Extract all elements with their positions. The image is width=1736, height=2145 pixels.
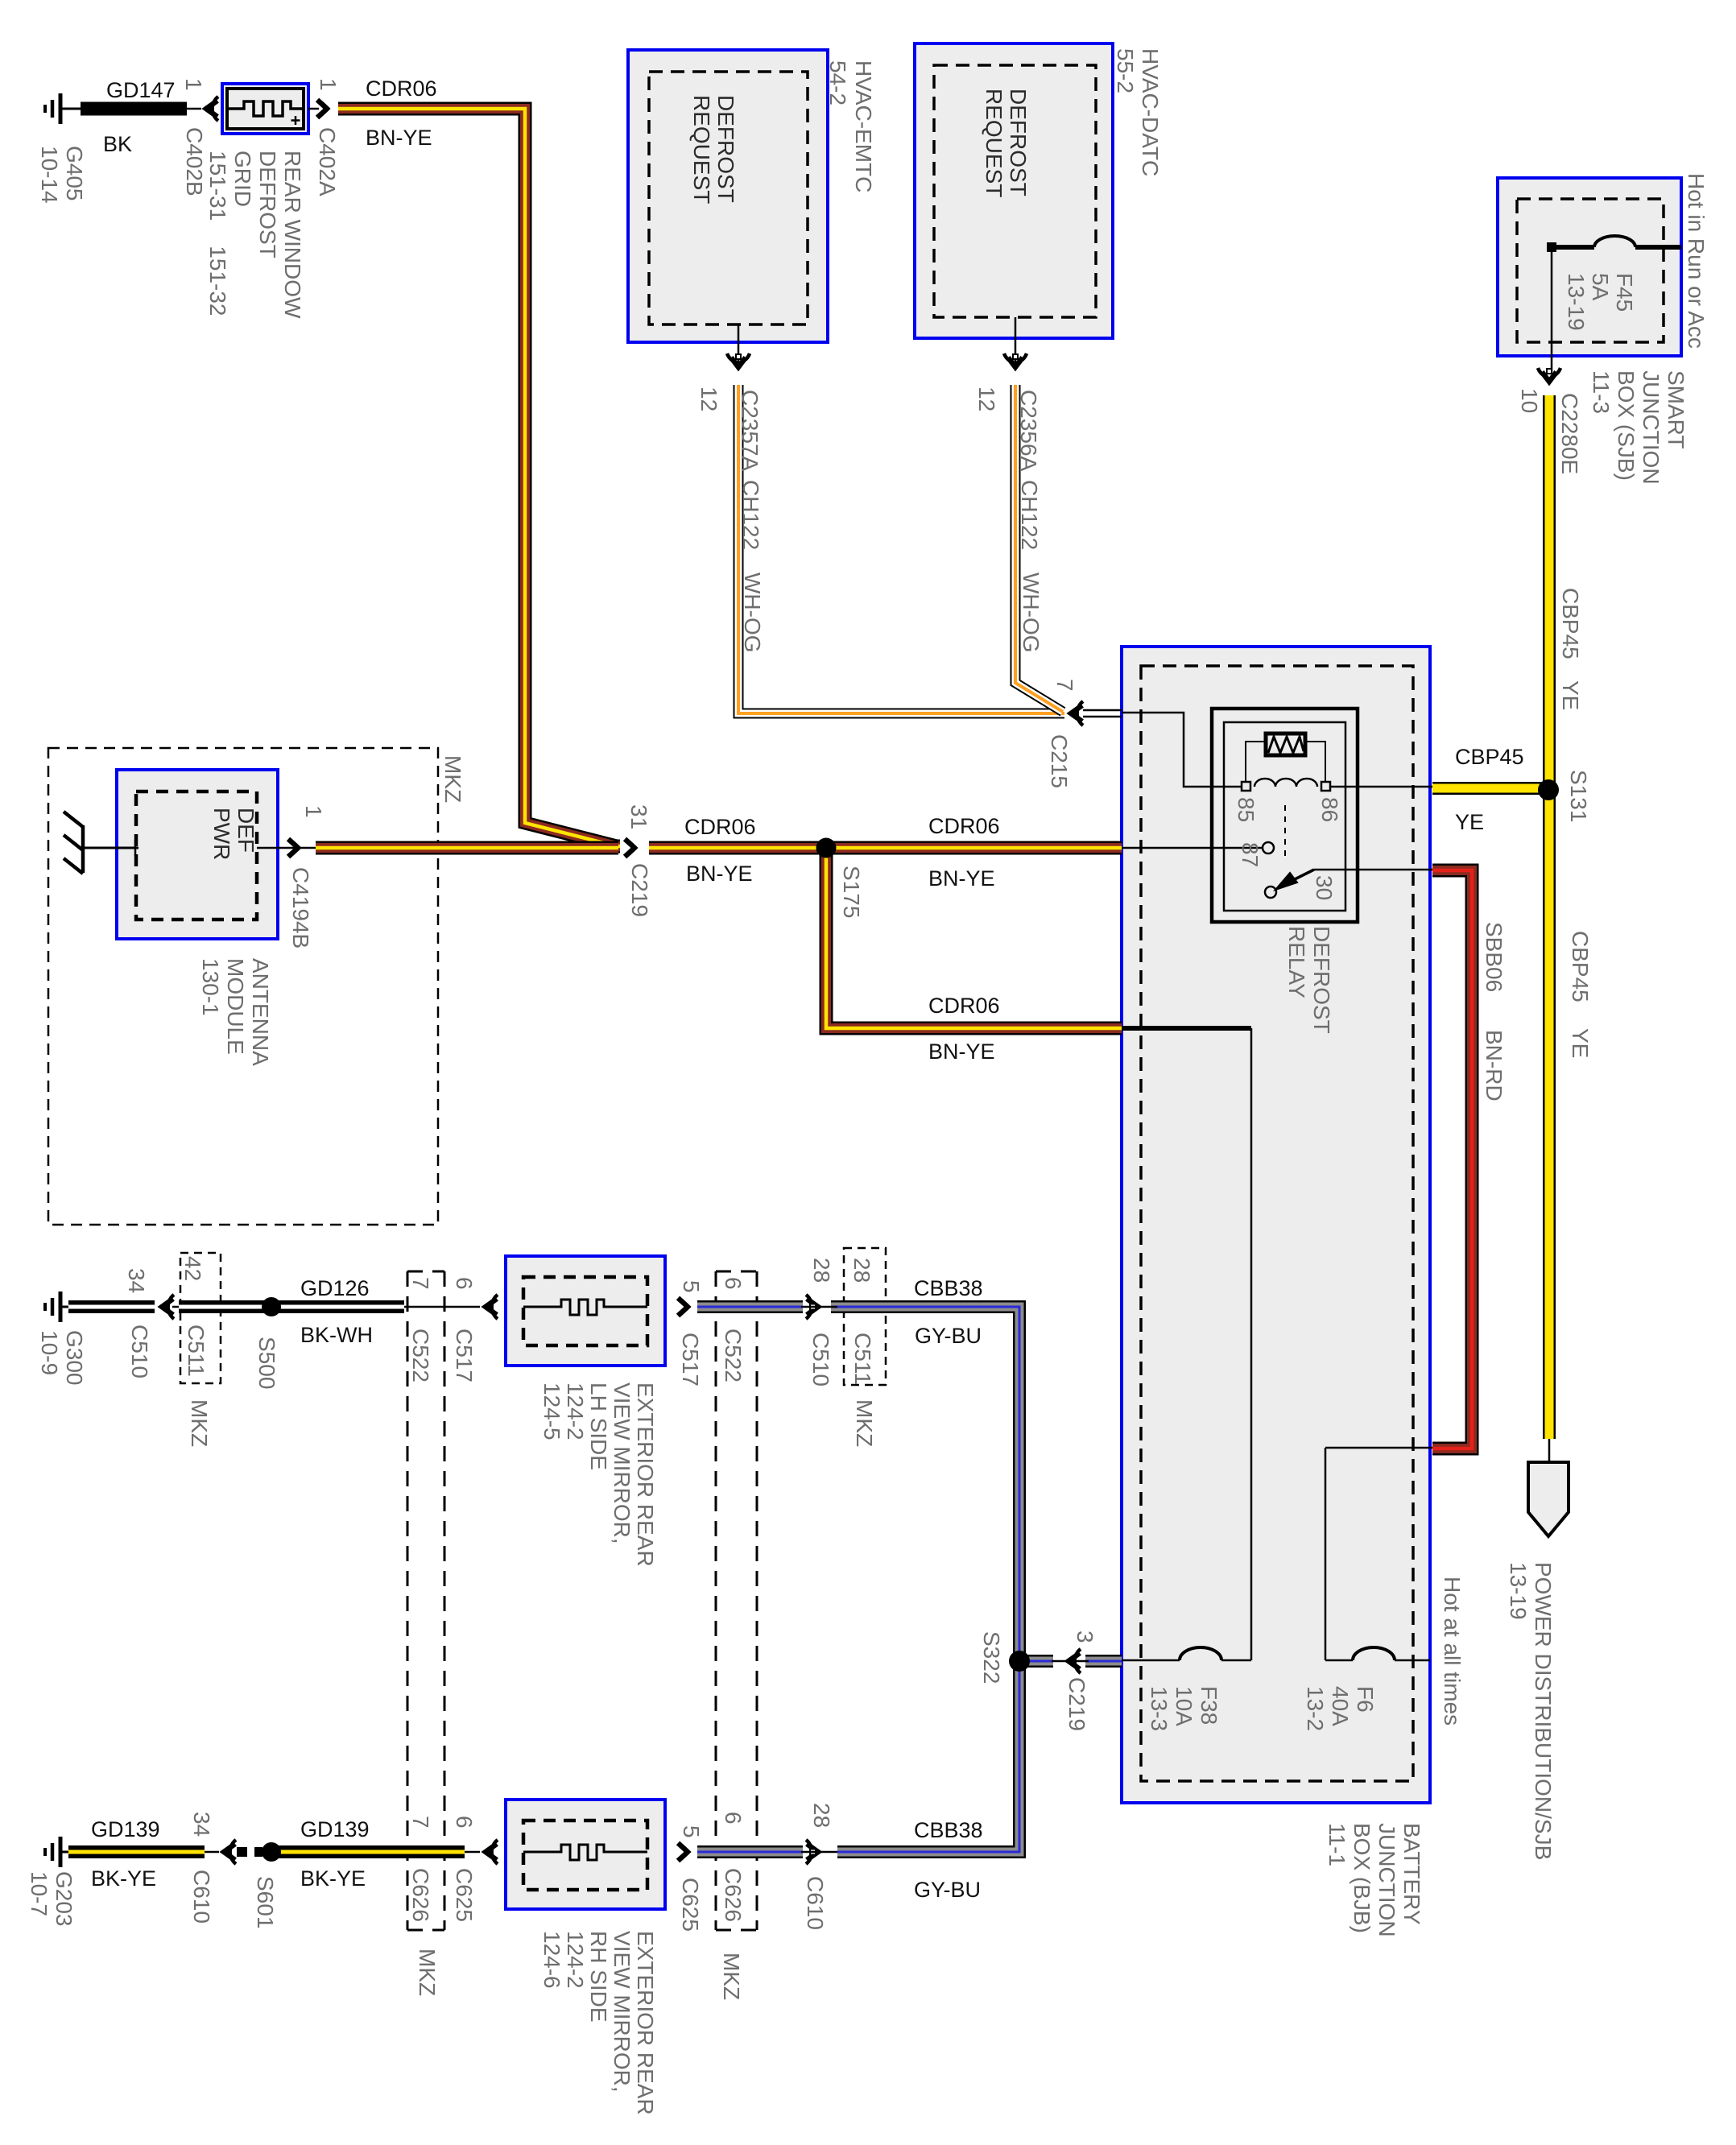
connector arrow C2357A pin 12 [727,353,750,367]
svg-text:MKZ: MKZ [187,1399,212,1447]
LH mirror heater element [523,1300,647,1315]
svg-text:C4194B: C4194B [288,867,313,949]
svg-text:CDR06: CDR06 [928,814,1000,838]
thin line from yellow wire end to pentagon [1548,1439,1551,1462]
connector arrow C219 pin 3 [1068,1649,1081,1673]
label "S175" [839,866,864,918]
label "C625" [678,1878,703,1932]
svg-text:34: 34 [124,1268,149,1293]
svg-text:BN-YE: BN-YE [686,862,753,886]
label "C511" [184,1325,209,1377]
HVAC-EMTC box [628,50,828,342]
svg-text:7: 7 [1052,679,1077,692]
label "Hot at all times" [1440,1577,1465,1726]
label "7" [408,1277,433,1290]
svg-text:CBB38: CBB38 [914,1276,983,1300]
svg-text:GY-BU: GY-BU [914,1878,981,1902]
svg-text:BOX (BJB): BOX (BJB) [1350,1823,1374,1933]
label "REAR WINDOW / DEFROST / GRID / 151-31 151-32" [205,151,305,319]
svg-text:VIEW MIRROR,: VIEW MIRROR, [610,1382,634,1544]
svg-text:S500: S500 [254,1337,279,1389]
svg-text:BN-YE: BN-YE [928,866,995,891]
svg-text:124-5: 124-5 [539,1382,564,1440]
wire CDR06 BN-YE : C402A to corner, down, to C219 [338,109,620,846]
svg-text:C510: C510 [127,1325,152,1378]
svg-text:S601: S601 [253,1876,278,1928]
svg-text:1: 1 [301,805,326,818]
svg-text:BK-WH: BK-WH [300,1323,373,1347]
label "6" [452,1816,477,1829]
label "DEFROST / RELAY" [1284,926,1334,1034]
svg-text:87: 87 [1238,842,1263,867]
RH mirror box [506,1800,665,1909]
svg-text:HVAC-DATC: HVAC-DATC [1138,48,1163,176]
label "C510" [808,1333,833,1387]
tall inline connector C522/C626 dashed rect (right pair) [716,1271,757,1930]
label "DEFROST / REQUEST" [689,95,738,204]
svg-text:G203: G203 [52,1871,76,1927]
svg-text:54-2: 54-2 [825,60,850,105]
label "C522" [408,1329,433,1382]
label "6" [721,1277,746,1290]
wire CBB38 GY-BU corner run [831,1307,1019,1852]
svg-text:6: 6 [721,1277,746,1290]
label "F6 / 40A / 13-2" [1303,1686,1378,1731]
tall inline connector C522/C626 dashed rect (left pair) [407,1271,444,1930]
svg-text:12: 12 [974,386,999,411]
svg-text:CDR06: CDR06 [928,994,1000,1018]
connector arrow C517 pin 5 [678,1298,688,1316]
wire CBP45 YE vertical [1543,395,1556,1439]
svg-text:151-31 151-32: 151-31 151-32 [205,151,230,316]
svg-text:13-2: 13-2 [1303,1686,1328,1731]
svg-text:C625: C625 [452,1868,477,1922]
F38 fuse [1122,1659,1251,1662]
label "C219" [1064,1677,1089,1731]
label "C219" [627,863,652,917]
label "5" [679,1280,704,1293]
svg-text:C219: C219 [1064,1677,1089,1731]
svg-text:BATTERY: BATTERY [1399,1823,1424,1925]
label "6" [721,1812,746,1825]
label "C402A" [315,127,340,196]
label "ANTENNA / MODULE / 130-1" [198,958,273,1066]
svg-text:YE: YE [1455,810,1484,834]
LH mirror ground chain: G300 [45,1292,81,1322]
connector arrow C610 pin 28 [806,1840,818,1864]
svg-text:DEF: DEF [234,808,258,853]
svg-text:CH122: CH122 [738,480,763,550]
svg-text:86: 86 [1317,797,1342,822]
svg-text:C2357A: C2357A [738,390,763,472]
label "CBP45" [1568,931,1593,1002]
svg-text:C610: C610 [803,1876,828,1930]
svg-text:YE: YE [1568,1028,1593,1058]
connector arrow C517 pin 6 [486,1295,498,1319]
svg-text:SBB06: SBB06 [1482,922,1507,992]
defrost grid element [229,101,302,116]
label "HVAC-DATC / 55-2" [1113,48,1163,176]
power distribution pentagon [1528,1462,1569,1536]
label "28" [809,1258,834,1283]
svg-text:BK-YE: BK-YE [91,1866,156,1891]
svg-text:WH-OG: WH-OG [1019,572,1044,653]
svg-text:Hot in Run or Acc: Hot in Run or Acc [1684,173,1709,349]
svg-text:11-3: 11-3 [1589,370,1614,414]
svg-text:DEFROST: DEFROST [1309,926,1334,1034]
ground G405 [45,93,81,124]
label "BN-RD" [1482,1030,1507,1101]
svg-text:LH SIDE: LH SIDE [586,1382,611,1470]
wire GD139 BK-YE left [68,1845,205,1858]
svg-text:C402B: C402B [182,127,207,196]
SJB box [1498,178,1681,356]
F6 fuse + feed line [1325,1448,1430,1660]
label "YE" [1558,680,1583,710]
svg-text:S322: S322 [979,1631,1004,1684]
antenna module stub to connector [257,847,316,849]
svg-text:124-6: 124-6 [539,1931,564,1989]
label "42" [180,1256,205,1281]
label "C517" [678,1333,703,1387]
connector arrow C610 pin 34 [224,1840,236,1864]
wire from antenna module C4194B [316,841,618,855]
coil arcs [1254,779,1317,787]
svg-text:C626: C626 [408,1868,433,1922]
splice S601 [262,1842,281,1862]
svg-text:42: 42 [180,1256,205,1281]
label "3" [1073,1630,1097,1643]
label "MKZ" [187,1399,212,1447]
label "C522" [721,1329,746,1382]
label "1" [181,78,206,91]
label "CBP45" [1558,588,1583,659]
label "BATTERY / JUNCTION / BOX (BJB) / 11-1" [1325,1823,1424,1937]
label "CH122" [1017,480,1042,550]
svg-text:C511: C511 [184,1325,209,1377]
label "MKZ" [440,755,465,803]
wire CBB38 GY-BU RH row [697,1845,803,1858]
svg-text:7: 7 [408,1277,433,1290]
DATC internal wire stub [1015,317,1017,366]
svg-text:BOX (SJB): BOX (SJB) [1614,370,1639,481]
label "6" [452,1277,477,1290]
svg-text:GY-BU: GY-BU [915,1324,982,1348]
wire SBB06 BN-RD [1432,870,1472,1449]
svg-text:C402A: C402A [315,127,340,196]
label "S601" [253,1876,278,1928]
dashed link to S601 [237,1847,262,1857]
RH mirror ground chain: G203 [45,1837,81,1867]
svg-text:10: 10 [1517,388,1542,413]
svg-text:CDR06: CDR06 [684,815,756,839]
label "C2357A" [738,390,763,472]
svg-text:6: 6 [721,1812,746,1825]
wire GD126 BK-WH left [68,1300,155,1313]
connector arrow C402B pin 1 [206,97,218,121]
svg-text:REAR WINDOW: REAR WINDOW [280,151,305,319]
label "C510" [127,1325,152,1378]
svg-text:DEFROST: DEFROST [1006,89,1031,196]
label "1" [301,805,326,818]
connector arrow C4194B pin 1 [288,839,298,857]
svg-text:C610: C610 [189,1870,214,1924]
label "S322" [979,1631,1004,1684]
label "C511" [850,1333,875,1385]
line 85 to C215 entry [1122,713,1242,787]
label "28" [849,1258,874,1283]
rear window defrost grid box [222,84,308,134]
label "SMART / JUNCTION / BOX (SJB) / 11-3" [1589,370,1688,485]
svg-text:CBP45: CBP45 [1455,745,1524,769]
svg-text:WH-OG: WH-OG [740,572,765,653]
wire GD147 BK (solid black) [81,102,187,116]
svg-text:28: 28 [809,1803,834,1828]
87 contact line [1122,847,1262,849]
wire CDR06 BN-YE : S175 branch down to BJB [826,853,1122,1028]
wire CH122 WH-OG from EMTC [738,385,1064,713]
svg-text:MKZ: MKZ [415,1949,440,1996]
line 86 to yellow wire [1330,786,1432,788]
svg-text:C510: C510 [808,1333,833,1387]
svg-text:5: 5 [679,1825,704,1838]
label "C626" [721,1868,746,1922]
svg-text:GRID: GRID [230,151,255,207]
svg-text:55-2: 55-2 [1113,48,1138,93]
chassis ground (antenna) [64,812,83,874]
svg-text:REQUEST: REQUEST [689,95,714,204]
label "YE" [1568,1028,1593,1058]
svg-text:31: 31 [626,804,651,829]
svg-text:GD139: GD139 [91,1817,160,1841]
svg-text:BK: BK [103,132,132,156]
label "31" [626,804,651,829]
label "7" [408,1816,433,1829]
svg-text:PWR: PWR [209,808,234,860]
svg-text:6: 6 [452,1816,477,1829]
label "HVAC-EMTC / 54-2" [825,60,876,192]
svg-text:7: 7 [408,1816,433,1829]
svg-text:F38: F38 [1197,1686,1221,1725]
svg-text:11-1: 11-1 [1325,1823,1350,1866]
svg-text:C2280E: C2280E [1557,393,1582,474]
svg-text:REQUEST: REQUEST [982,89,1006,197]
label "1" [316,78,341,91]
label "WH-OG" [740,572,765,653]
svg-text:G405: G405 [62,146,87,201]
wire GD139 BK-YE mid [277,1845,465,1858]
switch blade [1265,887,1276,898]
svg-text:1: 1 [181,78,206,91]
C511 inline connector dashed box (CBB38 row) [844,1248,886,1385]
svg-text:S131: S131 [1566,770,1591,822]
svg-text:F45: F45 [1612,273,1637,312]
label "WH-OG" [1019,572,1044,653]
label "12" [696,386,721,411]
splice S131 [1538,779,1559,800]
svg-text:F6: F6 [1353,1686,1378,1713]
label "C626" [408,1868,433,1922]
splice S322 [1009,1651,1030,1672]
svg-text:10-9: 10-9 [37,1330,62,1375]
label "S500" [254,1337,279,1389]
svg-text:ANTENNA: ANTENNA [248,958,273,1066]
svg-text:HVAC-EMTC: HVAC-EMTC [851,60,876,192]
svg-text:130-1: 130-1 [198,958,223,1016]
svg-text:POWER DISTRIBUTION/SJB: POWER DISTRIBUTION/SJB [1531,1562,1556,1860]
label "10" [1517,388,1542,413]
splice S175 [816,838,837,858]
relay coil resistor box [1266,734,1305,755]
label "30" [1312,875,1337,900]
svg-text:C522: C522 [721,1329,746,1382]
HVAC-DATC box [915,43,1113,338]
label "EXTERIOR REAR / VIEW MIRROR, / RH SIDE / 124-2 / 124-6" [539,1931,658,2115]
connector arrow C510 pin 34 [162,1295,174,1319]
svg-text:3: 3 [1073,1630,1097,1643]
svg-text:G300: G300 [62,1330,87,1386]
connector arrow C215 pin 7 [1071,701,1083,725]
wire S322 stub to C219 [1019,1655,1053,1668]
svg-text:40A: 40A [1328,1686,1353,1726]
svg-text:C215: C215 [1047,734,1072,788]
thick CDR06 line inside BJB [1122,1026,1251,1031]
wire GD126 BK-WH mid [179,1300,404,1313]
svg-text:GD139: GD139 [300,1817,370,1841]
neutral twisted pair C215 to BJB [1083,710,1122,717]
label "G203 / 10-7" [27,1871,76,1927]
svg-text:EXTERIOR REAR: EXTERIOR REAR [633,1931,658,2115]
svg-text:MKZ: MKZ [440,755,465,803]
label "C215" [1047,734,1072,788]
label "C625" [452,1868,477,1922]
svg-text:Hot at all times: Hot at all times [1440,1577,1465,1726]
label "Hot in Run or Acc" [1684,173,1709,349]
label "85" [1234,797,1259,822]
label "DEF / PWR" [209,808,258,860]
connector arrow C2280E pin 10 [1538,368,1560,382]
label "34" [189,1812,214,1837]
svg-text:JUNCTION: JUNCTION [1639,370,1664,485]
thin link grid box to C402A arrow [308,108,319,110]
wire thin links at connector gaps [801,1307,1089,1852]
svg-text:S175: S175 [839,866,864,918]
antenna module stub to ground [84,847,138,849]
svg-text:30: 30 [1312,875,1337,900]
svg-text:JUNCTION: JUNCTION [1374,1823,1399,1937]
svg-text:C219: C219 [627,863,652,917]
svg-text:34: 34 [189,1812,214,1837]
svg-text:BK-YE: BK-YE [300,1866,366,1891]
connector arrow C2356A pin 12 [1004,353,1027,367]
svg-text:BN-RD: BN-RD [1482,1030,1507,1101]
LH mirror box [506,1256,665,1366]
30 line to red wire [1314,869,1432,871]
svg-text:SMART: SMART [1664,370,1688,449]
svg-text:C626: C626 [721,1868,746,1922]
label "12" [974,386,999,411]
svg-text:13-19: 13-19 [1506,1562,1531,1620]
svg-text:28: 28 [849,1258,874,1283]
svg-text:VIEW MIRROR,: VIEW MIRROR, [610,1931,634,2093]
svg-text:RH SIDE: RH SIDE [586,1931,611,2023]
label "G405 / 10-14" [37,146,87,204]
svg-text:C517: C517 [452,1329,477,1382]
svg-text:124-2: 124-2 [563,1382,588,1440]
MKZ option dashed box (antenna module region) [48,748,438,1225]
label "C2280E" [1557,393,1582,474]
svg-text:BN-YE: BN-YE [366,126,432,150]
svg-text:6: 6 [452,1277,477,1290]
label "C517" [452,1329,477,1382]
svg-text:C2356A: C2356A [1016,390,1041,472]
svg-text:YE: YE [1558,680,1583,710]
svg-text:CDR06: CDR06 [366,76,437,101]
label "34" [124,1268,149,1293]
antenna module box [117,770,278,939]
wire CDR06 BN-YE : C219 to BJB [649,841,1122,855]
EMTC internal wire stub [738,324,740,366]
label "C610" [189,1870,214,1924]
label "SBB06" [1482,922,1507,992]
label "CH122" [738,480,763,550]
svg-text:12: 12 [696,386,721,411]
label "G300 / 10-9" [37,1330,87,1386]
svg-text:GD147: GD147 [106,78,176,102]
connector arrow C625 pin 6 [486,1840,498,1864]
label "86" [1317,797,1342,822]
RH mirror heater element [523,1845,647,1860]
label "MKZ" [852,1399,877,1447]
svg-text:DEFROST: DEFROST [713,95,738,203]
svg-text:10-7: 10-7 [27,1871,52,1916]
label "MKZ" [719,1953,744,2000]
label "C4194B" [288,867,313,949]
C511 inline connector dashed box (LH row) [180,1253,221,1383]
connector arrow C510 pin 28 [806,1295,818,1319]
label "S131" [1566,770,1591,822]
relay outer/inner rects [1212,709,1358,922]
connector arrow C402A pin 1 [317,100,327,118]
label "MKZ" [415,1949,440,1996]
BJB box [1122,647,1430,1803]
svg-text:1: 1 [316,78,341,91]
svg-text:10A: 10A [1172,1686,1197,1726]
relay action dashed line [1284,805,1286,860]
label "7" [1052,679,1077,692]
svg-text:GD126: GD126 [300,1276,370,1300]
svg-text:BN-YE: BN-YE [928,1039,995,1064]
svg-text:MODULE: MODULE [223,958,248,1055]
label "POWER DISTRIBUTION/SJB / 13-19" [1506,1562,1556,1860]
label "28" [809,1803,834,1828]
svg-text:C625: C625 [678,1878,703,1932]
svg-text:CBB38: CBB38 [914,1818,983,1842]
svg-text:124-2: 124-2 [563,1931,588,1989]
wire CH122 WH-OG from DATC [1015,385,1063,712]
label "C402B" [182,127,207,196]
coil wiring [1246,742,1325,782]
svg-text:C522: C522 [408,1329,433,1382]
SJB fuse F45 [1552,245,1681,250]
svg-text:13-3: 13-3 [1147,1686,1172,1731]
wire CBB38 GY-BU LH row [697,1300,803,1313]
label "5" [679,1825,704,1838]
svg-text:C511: C511 [850,1333,875,1385]
label "EXTERIOR REAR / VIEW MIRROR, / LH SIDE / 124-2 / 124-5" [539,1382,658,1567]
svg-text:CH122: CH122 [1017,480,1042,550]
label "C610" [803,1876,828,1930]
